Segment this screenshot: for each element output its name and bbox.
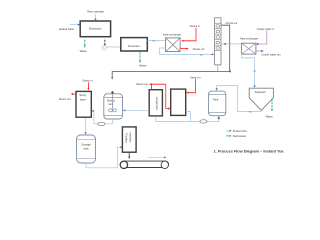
wire: evaporator bottoms to pump to tank [156,112,220,122]
svg-text:Decanter: Decanter [128,44,140,48]
wire: steam in to HX1 (red) [181,28,196,42]
svg-text:Steam out: Steam out [59,97,71,101]
svg-text:Aroma out: Aroma out [225,21,237,25]
svg-text:Packing: Packing [124,133,128,143]
wire: heated water arrow into extraction [70,24,80,26]
vessel: evaporator effect 2 [171,89,186,115]
svg-text:machine: machine [129,132,133,142]
vessel: Extraction [80,21,110,37]
wire: raw materials feed arrow [94,14,96,21]
svg-text:Heated water: Heated water [59,27,75,31]
wire: cooler water in (purple) [256,31,267,45]
svg-text:1. Process Flow Diagram – Inst: 1. Process Flow Diagram – Instant Tea [214,150,285,154]
wire: waste arrow below separator [271,99,273,112]
svg-text:Waste: Waste [266,115,274,119]
legend: product flow arrow [226,129,247,133]
vessel: Mixing tank with agitator [104,91,123,119]
label: tiny arrow on line near column right [224,43,226,45]
vessel: Spray dryer [76,91,91,117]
wire: packing machine to conveyor [128,152,130,159]
svg-text:Evaporator: Evaporator [155,97,159,110]
wire: evaporator concentrate to mixing tank [123,109,149,111]
legend: solid waste arrow [226,134,247,138]
svg-text:Raw materials: Raw materials [87,10,104,14]
wire: evaporator steam-out and inter-effect steam (red) [149,83,170,110]
svg-text:Mixing: Mixing [107,99,115,103]
svg-text:Separator: Separator [255,90,267,94]
vessel: Decanter [121,38,148,51]
svg-text:Steam out: Steam out [193,47,205,51]
wire: HX1 outlet down and right to column [160,48,215,56]
svg-text:Waste: Waste [139,63,147,67]
vessel: Storage tank [77,135,96,163]
svg-text:Heat exchanger: Heat exchanger [240,36,258,40]
vessel: Tank [209,91,226,116]
wire: mixing tank to pump to spray dryer [91,110,112,124]
wire: waste arrow below extraction (green dashed) [84,40,86,48]
wire: steam into evaporator 2 (red) [186,79,195,94]
wire: separator bottom to tank top [216,86,262,112]
wire: HX2 down to separator [242,54,256,88]
wire: waste arrow below decanter [139,52,141,63]
wire: spray dryer to storage tank [84,118,86,135]
svg-text:Steam in: Steam in [190,24,201,28]
pump: ellipse pump (evaporator to tank) [200,120,207,123]
wire: column to HX2 [221,43,242,45]
heat-exchanger HX2 [242,43,256,54]
wire: steam out of spray dryer (red) [71,93,76,95]
column: stripping column [215,18,221,65]
svg-text:Storage: Storage [81,143,91,147]
svg-text:Tank: Tank [213,97,219,101]
svg-text:Waste: Waste [80,49,88,53]
wire: steam out of HX1 (red) [180,48,188,50]
vessel: Packing machine (vertical text) [122,127,136,152]
separator: pentagon vessel [249,88,273,110]
svg-text:Extraction: Extraction [89,27,102,31]
svg-text:Cooler water out: Cooler water out [261,52,280,56]
svg-text:tank: tank [108,102,114,106]
svg-text:Steam in: Steam in [82,78,93,82]
pump: circle between extraction and decanter [102,46,106,50]
heat-exchanger HX1 [166,38,181,52]
svg-text:Steam out: Steam out [136,82,148,86]
svg-text:Heat exchanger: Heat exchanger [163,32,181,36]
svg-text:Spray: Spray [79,93,87,97]
wire: decanter to heat exchanger 1 [147,40,165,42]
conveyor: belt with end rollers [120,161,168,168]
wire: pump to decanter [107,46,121,48]
pump: ellipse pump (mixing tank to spray dryer) [98,122,105,125]
wire: cooler water out (purple) [256,50,264,52]
svg-text:Cooler water in: Cooler water in [257,27,275,31]
wire: extraction outlet dark dashed arrow to pump [104,40,106,46]
vessel: Evaporator (effect 1, vertical text) [149,90,162,116]
wire: column bottom stub to aroma line [217,65,219,72]
svg-text:dryer: dryer [80,97,86,101]
wire: storage tank to packing machine [86,146,123,168]
svg-text:tank: tank [83,147,89,151]
wire: conveyor direction arrow [148,156,166,158]
wire: steam into spray dryer top (red) [87,82,89,90]
svg-text:Steam in: Steam in [190,75,201,79]
wire: aroma line column top to mixing tank (dark) [111,25,231,79]
svg-text:Product flow: Product flow [233,129,247,133]
svg-text:Solid waste: Solid waste [233,134,247,138]
